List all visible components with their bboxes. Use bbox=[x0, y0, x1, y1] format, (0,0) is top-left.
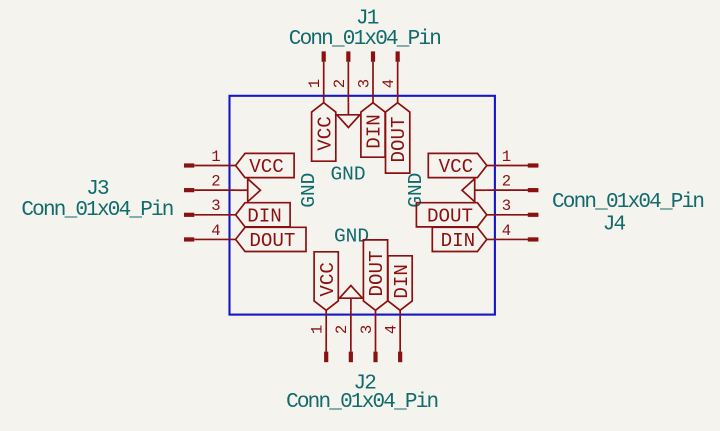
svg-text:2: 2 bbox=[333, 325, 351, 334]
global label DOUT (J2 pin 3) bbox=[363, 240, 388, 310]
J2 pin 2 stub bbox=[349, 352, 353, 363]
svg-text:1: 1 bbox=[502, 148, 511, 166]
GND net name text (J2) bbox=[334, 225, 369, 247]
J1 pin 2 wire bbox=[347, 62, 349, 103]
J2 pin 1 wire bbox=[325, 310, 327, 351]
global label DIN (J3 pin 3) bbox=[236, 203, 291, 228]
J1 pin number 4 bbox=[380, 79, 398, 88]
global label DOUT (J4 pin 3) bbox=[416, 203, 486, 228]
J4 pin 1 stub bbox=[528, 163, 539, 167]
J1 pin 1 wire bbox=[323, 62, 325, 103]
J2 pin 3 stub bbox=[373, 352, 377, 363]
svg-text:VCC: VCC bbox=[249, 156, 284, 178]
J2 pin 4 wire bbox=[399, 310, 401, 351]
global label VCC (J1 pin 1) bbox=[312, 103, 337, 162]
global label DIN (J2 pin 4) bbox=[388, 256, 413, 310]
global label DIN (J1 pin 3) bbox=[361, 103, 386, 158]
svg-text:4: 4 bbox=[380, 79, 398, 88]
svg-text:J3: J3 bbox=[86, 178, 109, 201]
svg-text:1: 1 bbox=[211, 148, 220, 166]
svg-text:1: 1 bbox=[306, 79, 324, 88]
power symbol GND (J1 pin 2) bbox=[337, 103, 360, 128]
J4 pin 2 stub bbox=[528, 188, 539, 192]
J1 pin number 3 bbox=[355, 79, 373, 88]
svg-text:1: 1 bbox=[309, 325, 327, 334]
J1 pin number 1 bbox=[306, 79, 324, 88]
J2 pin 4 stub bbox=[398, 352, 402, 363]
J1 value Conn_01x04_Pin bbox=[289, 28, 440, 51]
svg-text:VCC: VCC bbox=[317, 262, 339, 297]
svg-text:VCC: VCC bbox=[439, 156, 474, 178]
J1 pin 1 stub bbox=[322, 51, 326, 61]
J3 pin number 4 bbox=[211, 222, 220, 240]
J2 pin 2 wire bbox=[350, 310, 352, 351]
svg-text:DIN: DIN bbox=[441, 230, 476, 252]
svg-text:DOUT: DOUT bbox=[388, 116, 410, 162]
svg-text:DIN: DIN bbox=[391, 264, 413, 299]
svg-text:DIN: DIN bbox=[247, 205, 282, 227]
J3 pin number 3 bbox=[211, 197, 220, 215]
svg-text:Conn_01x04_Pin: Conn_01x04_Pin bbox=[286, 391, 437, 414]
J3 pin 1 wire bbox=[194, 165, 235, 167]
svg-text:DIN: DIN bbox=[364, 114, 386, 149]
J2 pin 3 wire bbox=[375, 310, 377, 351]
J3 pin 2 stub bbox=[184, 188, 194, 192]
svg-text:2: 2 bbox=[331, 79, 349, 88]
J2 pin number 2 bbox=[333, 325, 351, 334]
svg-text:Conn_01x04_Pin: Conn_01x04_Pin bbox=[552, 191, 703, 214]
J1 pin 3 wire bbox=[372, 62, 374, 103]
J3 value Conn_01x04_Pin bbox=[21, 199, 172, 222]
J1 pin 2 stub bbox=[346, 51, 350, 61]
global label VCC (J4 pin 1) bbox=[428, 153, 487, 178]
svg-text:3: 3 bbox=[211, 197, 220, 215]
J3 pin number 1 bbox=[211, 148, 220, 166]
connector J2 (Conn_01x04_Pin) bbox=[286, 225, 437, 414]
global label DOUT (J3 pin 4) bbox=[236, 227, 306, 252]
J4 value Conn_01x04_Pin bbox=[552, 191, 703, 214]
svg-text:GND: GND bbox=[298, 173, 320, 208]
svg-text:J1: J1 bbox=[356, 7, 379, 30]
svg-text:VCC: VCC bbox=[314, 116, 336, 151]
J4 pin 3 stub bbox=[528, 213, 539, 217]
svg-text:Conn_01x04_Pin: Conn_01x04_Pin bbox=[21, 199, 172, 222]
power symbol GND (J4 pin 2) bbox=[462, 179, 487, 202]
svg-text:3: 3 bbox=[358, 325, 376, 334]
J3 pin 3 wire bbox=[194, 214, 235, 216]
power symbol GND (J2 pin 2) bbox=[339, 286, 362, 311]
svg-text:4: 4 bbox=[502, 222, 511, 240]
svg-text:4: 4 bbox=[211, 222, 220, 240]
J3 pin 2 wire bbox=[194, 189, 235, 191]
svg-text:Conn_01x04_Pin: Conn_01x04_Pin bbox=[289, 28, 440, 51]
J4 reference label bbox=[603, 214, 626, 237]
power symbol GND (J3 pin 2) bbox=[236, 179, 261, 202]
global label DOUT (J1 pin 4) bbox=[386, 103, 411, 173]
J4 pin number 2 bbox=[502, 173, 511, 191]
J3 pin 4 stub bbox=[184, 237, 194, 241]
J1 pin 4 stub bbox=[396, 51, 400, 61]
J2 pin number 1 bbox=[309, 325, 327, 334]
GND net name text (J3) bbox=[298, 173, 320, 208]
global label DIN (J4 pin 4) bbox=[432, 227, 487, 252]
J1 pin number 2 bbox=[331, 79, 349, 88]
J4 pin 1 wire bbox=[487, 165, 539, 167]
J3 reference label bbox=[86, 178, 109, 201]
svg-text:3: 3 bbox=[502, 197, 511, 215]
svg-text:DOUT: DOUT bbox=[366, 250, 388, 296]
J4 pin 4 wire bbox=[487, 238, 539, 240]
svg-text:DOUT: DOUT bbox=[427, 205, 473, 227]
global label VCC (J3 pin 1) bbox=[236, 153, 295, 178]
J4 pin number 1 bbox=[502, 148, 511, 166]
J4 pin 3 wire bbox=[487, 214, 539, 216]
J3 pin 3 stub bbox=[184, 213, 194, 217]
J3 pin number 2 bbox=[211, 173, 220, 191]
J2 pin number 4 bbox=[383, 325, 401, 334]
J4 pin 4 stub bbox=[528, 237, 539, 241]
connector J3 (Conn_01x04_Pin) bbox=[21, 148, 320, 252]
J2 pin 1 stub bbox=[324, 352, 328, 363]
J1 pin 4 wire bbox=[397, 62, 399, 103]
connector J4 (Conn_01x04_Pin) bbox=[405, 148, 703, 252]
J4 pin number 3 bbox=[502, 197, 511, 215]
J4 pin 2 wire bbox=[487, 189, 539, 191]
svg-text:2: 2 bbox=[502, 173, 511, 191]
svg-text:J4: J4 bbox=[603, 214, 626, 237]
svg-text:2: 2 bbox=[211, 173, 220, 191]
J2 reference label bbox=[353, 373, 376, 396]
graphic rectangle (blue module outline) bbox=[230, 96, 495, 315]
GND net name text (J4) bbox=[405, 173, 427, 208]
J1 reference label bbox=[356, 7, 379, 30]
connector J1 (Conn_01x04_Pin) bbox=[289, 7, 440, 185]
J2 pin number 3 bbox=[358, 325, 376, 334]
GND net name text (J1) bbox=[330, 163, 365, 185]
J3 pin 1 stub bbox=[184, 163, 194, 167]
J1 pin 3 stub bbox=[371, 51, 375, 61]
svg-text:4: 4 bbox=[383, 325, 401, 334]
svg-text:DOUT: DOUT bbox=[249, 230, 295, 252]
J3 pin 4 wire bbox=[194, 238, 235, 240]
J2 value Conn_01x04_Pin bbox=[286, 391, 437, 414]
svg-text:3: 3 bbox=[355, 79, 373, 88]
global label VCC (J2 pin 1) bbox=[314, 252, 339, 310]
J4 pin number 4 bbox=[502, 222, 511, 240]
svg-text:GND: GND bbox=[330, 163, 365, 185]
